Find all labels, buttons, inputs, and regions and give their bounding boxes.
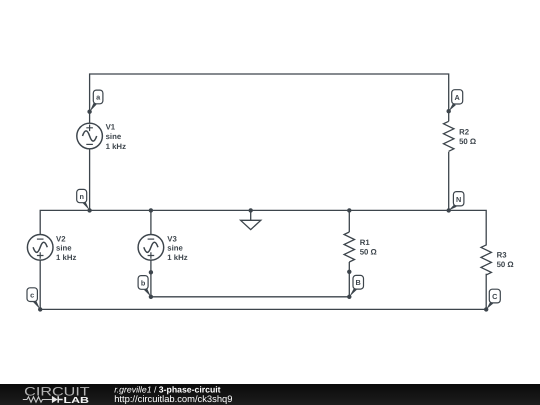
node dot A	[447, 109, 451, 113]
svg-text:R1: R1	[360, 238, 371, 247]
label R3 value	[497, 251, 514, 270]
wire top horizontal a-A	[90, 74, 449, 112]
svg-text:50 Ω: 50 Ω	[459, 137, 476, 146]
wire R1 top to bus	[348, 210, 350, 232]
junction ground-bus	[249, 208, 253, 212]
wire V1 bottom to bus	[89, 149, 91, 211]
footer bar	[0, 384, 540, 405]
junction V3-bus	[149, 208, 153, 212]
junction V1-bus	[87, 208, 91, 212]
ground	[241, 210, 261, 229]
source V3	[138, 235, 164, 261]
svg-text:R3: R3	[497, 251, 508, 260]
svg-text:1 kHz: 1 kHz	[106, 142, 126, 151]
svg-text:LAB: LAB	[64, 395, 90, 405]
wire R3 bottom to C	[485, 274, 487, 310]
node dot N	[447, 208, 451, 212]
svg-text:N: N	[456, 195, 461, 204]
svg-text:1 kHz: 1 kHz	[56, 253, 76, 262]
svg-text:1 kHz: 1 kHz	[167, 253, 187, 262]
junction R1-bus	[347, 208, 351, 212]
svg-text:sine: sine	[56, 243, 72, 252]
wire R2 top stub	[448, 111, 450, 121]
resistor R3	[481, 245, 491, 275]
svg-text:sine: sine	[106, 132, 122, 141]
wire R2 bottom to bus	[448, 152, 450, 211]
wire b-B horizontal	[151, 296, 349, 298]
svg-text:sine: sine	[167, 243, 183, 252]
node label n	[77, 189, 90, 210]
node dot C	[484, 307, 488, 311]
svg-text:50 Ω: 50 Ω	[497, 260, 514, 269]
logo diode	[52, 396, 58, 403]
node label N	[449, 192, 464, 211]
wire V2 bottom to c	[39, 260, 41, 309]
node label b	[138, 276, 151, 297]
node dot B	[347, 295, 351, 299]
svg-text:b: b	[141, 278, 146, 287]
svg-text:V2: V2	[56, 234, 66, 243]
wire V3 top stub	[150, 210, 152, 234]
svg-text:n: n	[79, 192, 83, 201]
svg-text:R2: R2	[459, 128, 470, 137]
node dot R1 bottom terminal	[347, 270, 351, 274]
svg-text:B: B	[356, 278, 361, 287]
svg-text:A: A	[455, 93, 461, 102]
node dot c	[38, 307, 42, 311]
label V1 value	[106, 122, 126, 150]
node label B	[349, 275, 363, 296]
source V2	[27, 235, 53, 261]
label V3 value	[167, 234, 187, 262]
wire V1 top stub	[89, 112, 91, 124]
resistor R2	[444, 121, 454, 151]
svg-text:c: c	[30, 291, 34, 300]
svg-text:V1: V1	[106, 122, 116, 131]
svg-text:V3: V3	[167, 234, 177, 243]
wire V3 bottom to b	[150, 260, 152, 297]
wire bus n-N horizontal	[40, 210, 486, 245]
svg-text:http://circuitlab.com/ck3shq9: http://circuitlab.com/ck3shq9	[114, 393, 232, 404]
label V2 value	[56, 234, 76, 262]
resistor R1	[344, 232, 354, 262]
node label A	[449, 90, 463, 112]
node dot a	[87, 110, 91, 114]
node dot V3 bottom terminal	[149, 270, 153, 274]
logo resistor zigzag	[23, 397, 52, 402]
node dot b	[149, 295, 153, 299]
source V1	[77, 123, 103, 149]
node label C	[486, 289, 500, 309]
label R1 value	[360, 238, 377, 257]
wire c-C horizontal	[40, 308, 486, 310]
node label a	[90, 90, 103, 112]
wire R1 bottom to B	[348, 262, 350, 297]
node label c	[27, 288, 40, 310]
svg-text:C: C	[492, 292, 498, 301]
label R2 value	[459, 128, 476, 147]
svg-text:50 Ω: 50 Ω	[360, 248, 377, 257]
